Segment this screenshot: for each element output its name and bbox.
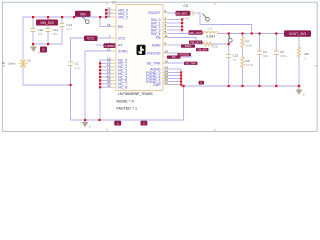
svg-text:VCC: VCC (87, 37, 95, 41)
svg-text:L2: L2 (209, 27, 213, 31)
svg-text:6: 6 (165, 9, 167, 13)
svg-text:FASTED = 1: FASTED = 1 (117, 106, 138, 110)
svg-text:SW_BST: SW_BST (176, 11, 188, 15)
svg-text:SYNC: SYNC (118, 49, 128, 53)
svg-text:SS: SS (172, 55, 176, 59)
svg-text:BIAS: BIAS (185, 44, 191, 48)
svg-text:12.4k: 12.4k (246, 63, 254, 67)
svg-text:U2: U2 (112, 1, 116, 5)
svg-text:2.2u: 2.2u (75, 66, 81, 70)
svg-text:31: 31 (165, 81, 169, 85)
svg-text:SS_TRK: SS_TRK (147, 61, 162, 65)
svg-text:SS_TRK: SS_TRK (185, 61, 196, 65)
svg-text:22: 22 (107, 13, 111, 17)
svg-text:LM73605RNP_TRANS: LM73605RNP_TRANS (118, 92, 153, 96)
svg-text:470n: 470n (183, 17, 190, 21)
svg-text:10: 10 (165, 59, 169, 63)
svg-text:7: 7 (109, 34, 111, 38)
svg-text:18: 18 (107, 23, 111, 27)
svg-text:V3: V3 (27, 59, 31, 63)
svg-text:17: 17 (107, 47, 111, 51)
svg-text:2: 2 (305, 57, 307, 61)
svg-text:R8: R8 (305, 52, 309, 56)
svg-text:EN: EN (118, 25, 123, 29)
svg-text:VOUT_3V3: VOUT_3V3 (289, 32, 306, 36)
svg-text:100k: 100k (246, 44, 253, 48)
svg-text:FB: FB (156, 36, 161, 40)
svg-text:MODE = 0: MODE = 0 (117, 100, 134, 104)
svg-text:C1: C1 (75, 61, 79, 65)
svg-text:16: 16 (165, 49, 169, 53)
svg-text:VIN: VIN (80, 12, 86, 16)
svg-text:9: 9 (109, 41, 111, 45)
svg-text:100k: 100k (212, 45, 219, 49)
svg-text:C9: C9 (184, 4, 188, 8)
svg-text:VIN_5V0: VIN_5V0 (40, 21, 54, 25)
svg-text:PGOOD: PGOOD (179, 53, 189, 57)
svg-text:VB_SW: VB_SW (198, 48, 208, 52)
svg-text:1u: 1u (233, 58, 237, 62)
svg-text:FB_OUT: FB_OUT (190, 40, 201, 44)
svg-text:VIN_2: VIN_2 (118, 15, 128, 19)
svg-text:0: 0 (43, 48, 45, 52)
svg-text:11: 11 (165, 34, 168, 38)
svg-text:68u: 68u (263, 54, 268, 58)
svg-text:BIAS: BIAS (152, 43, 161, 47)
svg-text:DAP: DAP (153, 83, 161, 87)
svg-text:SW_OUT: SW_OUT (189, 31, 202, 35)
svg-text:8: 8 (165, 41, 167, 45)
svg-text:10ms: 10ms (8, 62, 16, 66)
svg-text:470n: 470n (280, 54, 287, 58)
svg-text:PGOOD: PGOOD (147, 51, 161, 55)
svg-text:47n: 47n (67, 27, 72, 31)
svg-text:10u: 10u (38, 32, 43, 36)
svg-text:10u: 10u (53, 32, 58, 36)
svg-text:RT: RT (118, 43, 124, 47)
svg-text:VCC: VCC (118, 36, 126, 40)
svg-text:NC_8: NC_8 (118, 86, 127, 90)
svg-text:CBOOT: CBOOT (148, 11, 162, 15)
svg-text:30: 30 (107, 84, 111, 88)
svg-text:3.3uH: 3.3uH (206, 35, 215, 39)
